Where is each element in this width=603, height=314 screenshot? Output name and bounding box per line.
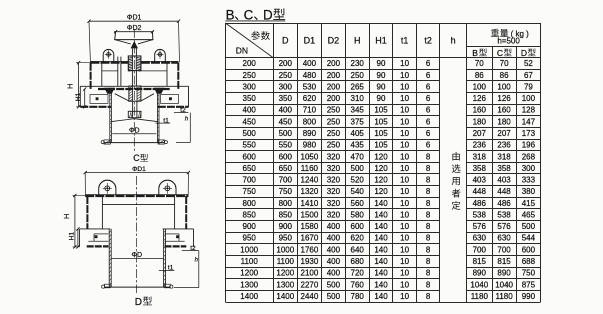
- D pipe feet: [102, 284, 173, 288]
- svg-text:250: 250: [279, 71, 293, 80]
- svg-text:140: 140: [374, 234, 388, 243]
- svg-text:10: 10: [400, 187, 409, 196]
- svg-text:720: 720: [351, 269, 365, 278]
- table row DN750: [243, 187, 536, 196]
- svg-text:1180: 1180: [495, 292, 513, 301]
- svg-text:1100: 1100: [277, 257, 295, 266]
- svg-text:8: 8: [426, 245, 431, 254]
- svg-text:800: 800: [279, 199, 293, 208]
- svg-text:560: 560: [351, 199, 365, 208]
- svg-text:310: 310: [351, 94, 365, 103]
- svg-text:320: 320: [327, 199, 341, 208]
- svg-text:160: 160: [473, 106, 487, 115]
- svg-text:ΦD2: ΦD2: [127, 25, 142, 32]
- C overflow tube: [118, 57, 121, 87]
- svg-text:H: H: [62, 214, 71, 219]
- svg-text:6: 6: [426, 59, 431, 68]
- svg-text:1000: 1000: [276, 245, 294, 254]
- svg-text:760: 760: [351, 280, 365, 289]
- svg-text:10: 10: [400, 117, 409, 126]
- C seal left: [104, 88, 114, 94]
- svg-text:450: 450: [279, 117, 293, 126]
- svg-text:52: 52: [524, 59, 533, 68]
- C seal right: [154, 88, 164, 94]
- svg-text:470: 470: [351, 152, 365, 161]
- svg-text:236: 236: [473, 141, 487, 150]
- C stem middle: [132, 71, 136, 86]
- svg-text:500: 500: [351, 164, 365, 173]
- svg-text:640: 640: [351, 245, 365, 254]
- C dimension t2: [174, 107, 188, 114]
- svg-text:320: 320: [327, 176, 341, 185]
- svg-text:200: 200: [327, 71, 341, 80]
- C dimension PhiD1: [87, 15, 180, 63]
- svg-text:950: 950: [243, 234, 257, 243]
- svg-text:320: 320: [327, 210, 341, 219]
- svg-text:300: 300: [279, 82, 293, 91]
- D dimension t2: [182, 245, 199, 252]
- svg-text:180: 180: [473, 117, 487, 126]
- svg-text:600: 600: [522, 245, 536, 254]
- svg-text:h: h: [195, 258, 199, 264]
- D dimension PhiD: [111, 252, 164, 259]
- svg-text:500: 500: [243, 129, 257, 138]
- svg-text:850: 850: [279, 210, 293, 219]
- table row DN500: [243, 129, 536, 138]
- C dimension H: [65, 61, 90, 108]
- C stem lower and guide: [128, 101, 141, 118]
- svg-text:H: H: [354, 35, 361, 45]
- svg-text:140: 140: [374, 257, 388, 266]
- svg-text:538: 538: [497, 210, 511, 219]
- svg-text:1200: 1200: [276, 269, 294, 278]
- svg-text:10: 10: [400, 141, 409, 150]
- svg-text:8: 8: [426, 210, 431, 219]
- svg-text:1500: 1500: [301, 210, 319, 219]
- svg-text:900: 900: [279, 222, 293, 231]
- column headers: [282, 35, 456, 45]
- svg-text:105: 105: [374, 117, 388, 126]
- svg-text:10: 10: [400, 129, 409, 138]
- table row DN650: [243, 164, 536, 173]
- svg-text:1930: 1930: [301, 257, 319, 266]
- svg-text:H: H: [65, 83, 74, 88]
- svg-text:980: 980: [303, 141, 317, 150]
- table row DN800: [243, 199, 536, 208]
- svg-text:576: 576: [497, 222, 511, 231]
- C flange left: [80, 86, 111, 107]
- svg-text:400: 400: [243, 106, 257, 115]
- svg-text:140: 140: [374, 292, 388, 301]
- svg-text:10: 10: [400, 82, 409, 91]
- svg-text:300: 300: [522, 164, 536, 173]
- svg-text:90: 90: [377, 71, 386, 80]
- svg-text:400: 400: [279, 106, 293, 115]
- svg-text:6: 6: [426, 71, 431, 80]
- svg-text:120: 120: [374, 164, 388, 173]
- table row DN250: [243, 71, 534, 80]
- svg-text:620: 620: [351, 234, 365, 243]
- svg-text:500: 500: [279, 129, 293, 138]
- svg-text:120: 120: [374, 187, 388, 196]
- svg-text:10: 10: [400, 106, 409, 115]
- svg-text:2100: 2100: [301, 269, 319, 278]
- D lifting lug right: [159, 180, 176, 195]
- svg-text:8: 8: [426, 269, 431, 278]
- svg-text:650: 650: [243, 164, 257, 173]
- svg-text:1000: 1000: [240, 245, 258, 254]
- D dimension t1: [159, 265, 175, 272]
- D dimension H: [62, 194, 85, 249]
- svg-text:8: 8: [426, 199, 431, 208]
- svg-text:D: D: [521, 48, 527, 58]
- svg-text:H1: H1: [75, 92, 82, 101]
- svg-text:ΦD1: ΦD1: [127, 15, 142, 22]
- svg-text:10: 10: [400, 152, 409, 161]
- svg-text:10: 10: [400, 210, 409, 219]
- svg-text:320: 320: [327, 187, 341, 196]
- table row DN700: [243, 176, 536, 185]
- svg-text:1410: 1410: [301, 199, 319, 208]
- C lifting lug left: [103, 49, 114, 62]
- svg-text:70: 70: [500, 59, 509, 68]
- table row DN950: [243, 234, 536, 243]
- svg-text:236: 236: [497, 141, 511, 150]
- C-type centerline: [133, 29, 135, 153]
- svg-text:140: 140: [374, 280, 388, 289]
- svg-text:400: 400: [327, 222, 341, 231]
- svg-text:688: 688: [522, 257, 536, 266]
- C top cover plate: [90, 61, 178, 62]
- svg-text:400: 400: [327, 245, 341, 254]
- svg-text:403: 403: [473, 176, 487, 185]
- svg-text:530: 530: [303, 82, 317, 91]
- svg-text:120: 120: [374, 176, 388, 185]
- svg-text:403: 403: [497, 176, 511, 185]
- D dimension PhiD1: [84, 166, 190, 195]
- C shell inner walls: [102, 63, 167, 86]
- svg-text:350: 350: [243, 94, 257, 103]
- svg-text:10: 10: [400, 176, 409, 185]
- C outlet pipe: [104, 89, 165, 143]
- svg-text:1670: 1670: [301, 234, 319, 243]
- svg-text:10: 10: [400, 234, 409, 243]
- svg-text:486: 486: [473, 199, 487, 208]
- svg-text:2440: 2440: [301, 292, 319, 301]
- svg-text:8: 8: [426, 280, 431, 289]
- table row DN600: [243, 152, 536, 161]
- C pipe feet: [101, 140, 167, 144]
- D cover plate: [85, 195, 188, 196]
- svg-text:405: 405: [351, 129, 365, 138]
- svg-text:120: 120: [374, 152, 388, 161]
- svg-text:147: 147: [522, 117, 536, 126]
- svg-text:t2: t2: [424, 35, 432, 45]
- svg-text:268: 268: [522, 152, 536, 161]
- table row DN200: [243, 59, 534, 68]
- svg-text:265: 265: [351, 82, 365, 91]
- svg-text:10: 10: [400, 269, 409, 278]
- svg-text:250: 250: [327, 106, 341, 115]
- svg-text:544: 544: [522, 234, 536, 243]
- h column note 由选用者定: [452, 152, 461, 210]
- svg-text:10: 10: [400, 94, 409, 103]
- svg-text:1160: 1160: [301, 164, 319, 173]
- svg-text:380: 380: [522, 187, 536, 196]
- svg-text:576: 576: [473, 222, 487, 231]
- D skirt inner surface: [102, 197, 174, 229]
- D dimension h: [174, 251, 199, 288]
- svg-text:700: 700: [243, 176, 257, 185]
- svg-text:900: 900: [243, 222, 257, 231]
- svg-text:D2: D2: [328, 35, 340, 45]
- C flange right: [158, 86, 189, 107]
- svg-text:1180: 1180: [471, 292, 489, 301]
- svg-text:600: 600: [243, 152, 257, 161]
- svg-text:H1: H1: [68, 232, 75, 241]
- svg-text:400: 400: [327, 234, 341, 243]
- C shell side walls: [91, 63, 179, 89]
- C lifting lug right: [155, 49, 166, 62]
- svg-text:10: 10: [400, 164, 409, 173]
- svg-text:250: 250: [327, 141, 341, 150]
- svg-text:1300: 1300: [240, 280, 258, 289]
- svg-text:6: 6: [426, 117, 431, 126]
- svg-text:600: 600: [279, 152, 293, 161]
- svg-text:890: 890: [473, 269, 487, 278]
- table row DN900: [243, 222, 536, 231]
- svg-text:800: 800: [303, 117, 317, 126]
- svg-text:230: 230: [351, 59, 365, 68]
- svg-text:448: 448: [473, 187, 487, 196]
- table row DN1000: [240, 245, 535, 254]
- D lifting lug left: [99, 180, 116, 195]
- svg-text:10: 10: [400, 257, 409, 266]
- table row DN350: [243, 94, 536, 103]
- svg-text:79: 79: [524, 82, 533, 91]
- svg-text:450: 450: [243, 117, 257, 126]
- svg-text:300: 300: [243, 82, 257, 91]
- svg-text:C: C: [133, 153, 140, 163]
- C dimension PhiD: [112, 128, 156, 135]
- svg-text:1040: 1040: [495, 280, 513, 289]
- svg-text:6: 6: [426, 106, 431, 115]
- svg-text:750: 750: [243, 187, 257, 196]
- svg-text:700: 700: [497, 245, 511, 254]
- svg-text:333: 333: [522, 176, 536, 185]
- svg-text:875: 875: [522, 280, 536, 289]
- D-type centerline: [136, 176, 138, 293]
- svg-text:6: 6: [426, 94, 431, 103]
- svg-text:D1: D1: [304, 35, 316, 45]
- svg-text:128: 128: [522, 106, 536, 115]
- svg-text:8: 8: [426, 164, 431, 173]
- svg-text:10: 10: [400, 280, 409, 289]
- svg-text:t1: t1: [401, 35, 409, 45]
- svg-text:815: 815: [497, 257, 511, 266]
- svg-text:318: 318: [497, 152, 511, 161]
- svg-text:1240: 1240: [301, 176, 319, 185]
- table row DN550: [243, 141, 536, 150]
- svg-text:105: 105: [374, 106, 388, 115]
- svg-text:10: 10: [400, 59, 409, 68]
- svg-text:B: B: [472, 48, 478, 58]
- D dimension H1: [68, 227, 79, 248]
- svg-text:6: 6: [426, 129, 431, 138]
- svg-text:750: 750: [522, 269, 536, 278]
- svg-text:2270: 2270: [301, 280, 319, 289]
- svg-text:400: 400: [303, 59, 317, 68]
- svg-text:630: 630: [497, 234, 511, 243]
- table row DN1100: [241, 257, 536, 266]
- svg-text:C: C: [244, 7, 254, 22]
- svg-text:1400: 1400: [240, 292, 258, 301]
- svg-text:86: 86: [475, 71, 484, 80]
- svg-text:375: 375: [351, 117, 365, 126]
- svg-text:200: 200: [327, 59, 341, 68]
- table grid: [225, 23, 540, 303]
- svg-text:890: 890: [303, 129, 317, 138]
- svg-text:90: 90: [377, 82, 386, 91]
- svg-text:126: 126: [473, 94, 487, 103]
- svg-text:620: 620: [303, 94, 317, 103]
- svg-text:320: 320: [327, 164, 341, 173]
- svg-text:700: 700: [279, 176, 293, 185]
- svg-text:140: 140: [374, 210, 388, 219]
- svg-text:90: 90: [377, 94, 386, 103]
- svg-text:448: 448: [497, 187, 511, 196]
- svg-text:710: 710: [303, 106, 317, 115]
- svg-text:H1: H1: [375, 35, 387, 45]
- svg-text:10: 10: [400, 222, 409, 231]
- svg-text:950: 950: [279, 234, 293, 243]
- C stem upper: [132, 48, 136, 56]
- svg-text:67: 67: [524, 71, 533, 80]
- svg-text:486: 486: [497, 199, 511, 208]
- svg-text:126: 126: [497, 94, 511, 103]
- svg-text:8: 8: [426, 234, 431, 243]
- sub headers B型 C型 D型: [472, 48, 535, 58]
- svg-text:140: 140: [374, 222, 388, 231]
- svg-text:320: 320: [327, 152, 341, 161]
- table row DN1300: [240, 280, 535, 289]
- weight header 重量(kg) h=500: [491, 29, 529, 46]
- svg-text:345: 345: [351, 106, 365, 115]
- svg-text:8: 8: [426, 176, 431, 185]
- svg-text:10: 10: [400, 292, 409, 301]
- svg-text:6: 6: [426, 141, 431, 150]
- svg-text:200: 200: [243, 59, 257, 68]
- svg-text:h: h: [185, 117, 189, 123]
- svg-text:500: 500: [327, 292, 341, 301]
- svg-text:105: 105: [374, 141, 388, 150]
- svg-text:815: 815: [473, 257, 487, 266]
- svg-text:173: 173: [522, 129, 536, 138]
- svg-text:B: B: [226, 7, 235, 22]
- svg-text:90: 90: [377, 59, 386, 68]
- svg-text:DN: DN: [236, 45, 248, 55]
- svg-text:540: 540: [351, 187, 365, 196]
- C dimension H1: [75, 87, 86, 108]
- D outlet pipe: [105, 229, 171, 287]
- svg-text:6: 6: [426, 82, 431, 91]
- svg-text:780: 780: [351, 292, 365, 301]
- svg-text:480: 480: [303, 71, 317, 80]
- svg-text:800: 800: [243, 199, 257, 208]
- svg-text:435: 435: [351, 141, 365, 150]
- D flange right: [163, 229, 194, 247]
- C dimension t1: [155, 117, 170, 124]
- svg-text:400: 400: [327, 269, 341, 278]
- C funnel: [115, 94, 154, 101]
- table title B、C、D型: [225, 7, 285, 22]
- svg-text:10: 10: [400, 71, 409, 80]
- svg-text:1580: 1580: [301, 222, 319, 231]
- svg-text:750: 750: [279, 187, 293, 196]
- svg-text:200: 200: [327, 94, 341, 103]
- svg-text:D: D: [282, 35, 289, 45]
- table row DN300: [243, 82, 534, 91]
- svg-text:140: 140: [374, 269, 388, 278]
- svg-text:180: 180: [497, 117, 511, 126]
- svg-text:520: 520: [351, 176, 365, 185]
- svg-text:140: 140: [374, 245, 388, 254]
- svg-text:538: 538: [473, 210, 487, 219]
- svg-text:500: 500: [522, 222, 536, 231]
- svg-text:550: 550: [243, 141, 257, 150]
- svg-text:86: 86: [500, 71, 509, 80]
- svg-text:250: 250: [243, 71, 257, 80]
- svg-text:8: 8: [426, 187, 431, 196]
- svg-text:630: 630: [473, 234, 487, 243]
- table row DN400: [243, 106, 536, 115]
- svg-text:100: 100: [473, 82, 487, 91]
- svg-text:550: 550: [279, 141, 293, 150]
- svg-text:ΦD: ΦD: [131, 252, 142, 259]
- svg-text:70: 70: [475, 59, 484, 68]
- svg-text:600: 600: [351, 222, 365, 231]
- svg-text:200: 200: [327, 82, 341, 91]
- svg-text:8: 8: [426, 292, 431, 301]
- svg-text:350: 350: [279, 94, 293, 103]
- svg-text:1400: 1400: [276, 292, 294, 301]
- D flange left: [80, 229, 111, 247]
- svg-text:200: 200: [279, 59, 293, 68]
- svg-text:160: 160: [497, 106, 511, 115]
- C handwheel with dimension PhiD2: [114, 25, 154, 48]
- svg-text:10: 10: [400, 245, 409, 254]
- svg-text:140: 140: [374, 199, 388, 208]
- svg-text:100: 100: [497, 82, 511, 91]
- C seat plate: [80, 86, 188, 89]
- C packing box: [129, 86, 141, 102]
- svg-text:100: 100: [522, 94, 536, 103]
- D-type label: [135, 297, 152, 308]
- svg-text:415: 415: [522, 199, 536, 208]
- svg-text:1760: 1760: [301, 245, 319, 254]
- svg-text:358: 358: [497, 164, 511, 173]
- svg-text:196: 196: [522, 141, 536, 150]
- C dimension h: [176, 113, 190, 143]
- svg-text:D: D: [135, 297, 142, 308]
- D skirt walls: [87, 196, 186, 229]
- svg-text:C: C: [497, 48, 503, 58]
- svg-text:105: 105: [374, 129, 388, 138]
- svg-text:h=500: h=500: [497, 37, 520, 46]
- svg-text:1100: 1100: [241, 257, 259, 266]
- C threaded gland: [128, 56, 141, 71]
- table row DN850: [243, 210, 536, 219]
